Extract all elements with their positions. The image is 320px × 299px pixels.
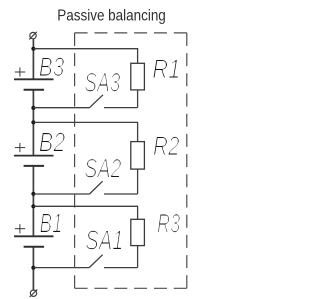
- node B (junction dot, SA3 row): [31, 106, 35, 110]
- terminal XT1 (top, circle with slash): [29, 32, 37, 40]
- wire: top node to R1 top: [33, 49, 137, 64]
- node D (junction dot, SA2 row): [31, 192, 35, 196]
- wire: node E to R3 top: [33, 206, 137, 219]
- wire: left rail segment B3- to B2+: [32, 90, 34, 156]
- wire: left rail segment B1- to bottom terminal: [32, 247, 34, 290]
- switch SA1: [33, 255, 137, 268]
- wire: R3 bottom lead: [137, 246, 139, 268]
- battery B2: [14, 143, 54, 166]
- resistor R2: [131, 142, 145, 170]
- battery B1: [14, 224, 54, 247]
- svg-text:R1: R1: [152, 54, 180, 84]
- wire: node C to R2 top: [33, 122, 137, 141]
- node C (junction dot, R2 top row): [31, 120, 35, 124]
- terminal XT2 (bottom, circle with slash): [30, 289, 38, 297]
- svg-text:SA3: SA3: [84, 67, 120, 97]
- svg-text:SA2: SA2: [84, 153, 121, 183]
- wire: left rail segment terminal to B3+: [32, 39, 34, 80]
- svg-text:Passive balancing: Passive balancing: [57, 7, 166, 24]
- wire: left rail segment B2- to B1+: [32, 166, 34, 236]
- resistor R1: [131, 63, 145, 90]
- svg-text:R2: R2: [153, 131, 180, 161]
- svg-text:SA1: SA1: [85, 224, 123, 255]
- svg-text:B1: B1: [40, 207, 63, 238]
- svg-text:B3: B3: [39, 52, 65, 82]
- battery B3: [14, 67, 54, 89]
- wire: R2 bottom lead: [137, 169, 139, 194]
- switch SA3: [33, 95, 137, 108]
- svg-text:R3: R3: [157, 209, 180, 239]
- wire: R1 bottom lead: [137, 90, 139, 108]
- dashed balancing-unit boundary box: [75, 33, 187, 288]
- resistor R3: [131, 219, 145, 245]
- node E (junction dot, R3 top row): [31, 204, 35, 208]
- switch SA2: [33, 181, 137, 194]
- svg-text:B2: B2: [39, 127, 66, 158]
- node A (junction dot, top node): [31, 47, 35, 51]
- node F (junction dot, SA1 row): [31, 266, 35, 270]
